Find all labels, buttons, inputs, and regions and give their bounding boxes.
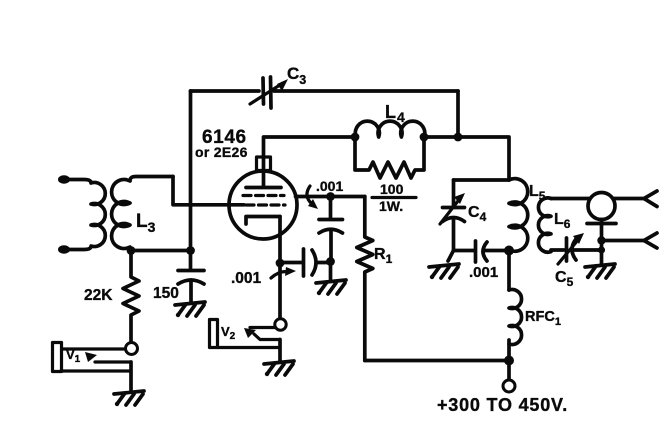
node L4 right [420,133,429,142]
node tank bottom junction [504,246,514,256]
terminal B+ [503,380,515,392]
capacitor C3 [250,77,288,108]
ground for V2 [264,361,294,376]
inductor L4 [355,121,424,137]
svg-text:100: 100 [380,181,404,197]
capacitor 150 [178,251,204,302]
lamp indicator [587,193,616,224]
tube screen grid (dashed) [243,194,284,197]
output fork bottom [644,233,657,248]
wire tank bottom to RFC [507,251,511,291]
pointer arrow for screen .001 [307,186,312,204]
ground for screen bypass [316,280,346,295]
inductor L5 [509,179,528,252]
tube control grid (dashed) [246,203,285,206]
wire grid lead from L3 top to tube [173,177,244,205]
output fork top [644,191,657,207]
capacitor C4 (variable) [440,180,465,251]
wire B+ terminal lead [507,361,511,381]
node L4 left [351,133,360,142]
tube V 6146 envelope [229,171,297,239]
node bypass/ground junction [326,257,335,266]
svg-text:+300 TO 450V.: +300 TO 450V. [437,395,568,415]
wire L3 bottom node to C3 node [131,249,191,253]
svg-text:1W.: 1W. [379,198,403,214]
wire lamp to output node [600,224,604,265]
inductor L3 [112,177,173,251]
svg-text:.001: .001 [316,178,343,194]
tube top cap [257,157,271,171]
ground for 150 [175,302,205,317]
ground for tank [448,251,454,262]
capacitor .001 (tank) [476,241,510,262]
tube plate and lead [246,186,281,190]
svg-text:.001: .001 [231,270,262,287]
svg-text:22K: 22K [84,287,113,304]
wire left vertical from C3 to grid-bias node [189,91,193,251]
wire bottom B+ rail [365,359,509,363]
resistor 100 1W [355,137,424,178]
node screen junction [326,192,335,201]
wire output top [613,197,644,201]
inductor RFC1 [509,289,522,344]
wire screen lead to R1 [296,195,365,199]
ground for output [585,264,615,279]
wire L6 bottom to C5 [551,248,564,252]
wire cathode lead down to V2 jack [278,217,282,319]
node output junction [597,236,605,244]
capacitor .001 screen bypass [319,197,343,262]
capacitor C5 (variable) [558,233,602,264]
wire top rail right segment [274,89,458,93]
node L3 bottom junction [127,246,136,255]
wire RFC bottom to rail [507,340,511,361]
node grid-bias junction [186,246,195,255]
transformer primary coil [58,175,105,253]
tube cathode [246,217,280,225]
pointer arrow for cathode .001 [271,272,288,278]
inductor L6 [538,198,551,252]
wire L6 top to lamp [551,197,590,201]
node C5 junction [598,246,605,253]
node cathode junction [276,259,285,268]
wire output bottom [602,239,645,243]
ground for V1 [114,391,144,406]
wire right vertical from C3 rail to plate node [456,91,460,137]
jack V2 [210,319,287,361]
wire tank top to C4 [454,178,510,182]
wire plate rail to tank [424,137,509,180]
node B+ rail junction [504,356,514,366]
resistor 22K [123,251,139,343]
svg-text:150: 150 [153,285,179,302]
wire to ground [329,262,333,280]
resistor R1 [357,197,373,361]
node plate/C3 junction [454,133,463,142]
wire tank bottom rail [454,249,475,253]
svg-text:.001: .001 [469,264,498,281]
capacitor .001 cathode bypass [280,249,331,276]
wire top rail left segment [191,89,260,93]
jack V1 [53,343,138,391]
svg-text:or 2E26: or 2E26 [195,144,248,160]
